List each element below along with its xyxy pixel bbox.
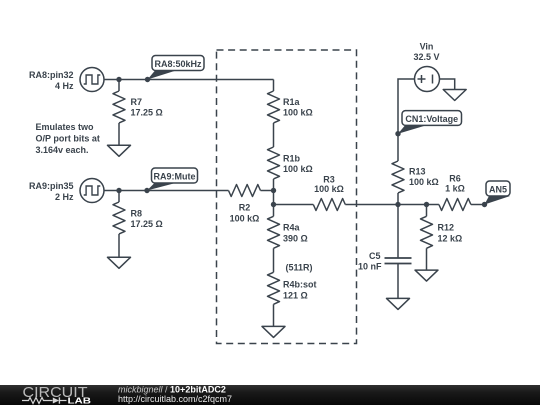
- label for source Vin (32.5 V): [413, 41, 439, 62]
- svg-text:R12: R12: [438, 223, 455, 233]
- wire R7 top lead: [118, 80, 120, 92]
- svg-text:R8: R8: [131, 209, 143, 219]
- wire Vin+ down to R13: [398, 79, 415, 161]
- wire RA9 row to R2: [104, 190, 229, 192]
- wire R12 to ground: [426, 248, 428, 270]
- svg-text:17.25 Ω: 17.25 Ω: [131, 108, 163, 118]
- svg-text:(511R): (511R): [286, 263, 313, 273]
- ground (under R7): [108, 145, 131, 156]
- svg-text:RA9:pin35: RA9:pin35: [29, 181, 74, 191]
- wire between R4a and R4b: [273, 248, 275, 272]
- svg-text:LAB: LAB: [68, 396, 92, 405]
- svg-text:R6: R6: [449, 174, 461, 184]
- wire R8 top lead: [118, 191, 120, 203]
- svg-text:Emulates two: Emulates two: [36, 122, 95, 132]
- wire R8 bottom lead: [118, 234, 120, 257]
- label for source V1 (RA8:pin32, 4 Hz): [29, 70, 74, 91]
- svg-text:Vin: Vin: [420, 41, 434, 51]
- node flag RA9:Mute: [144, 168, 197, 193]
- DC voltage source Vin: [415, 67, 440, 92]
- svg-text:R13: R13: [409, 167, 426, 177]
- svg-text:4 Hz: 4 Hz: [55, 81, 74, 91]
- node flag AN5: [482, 181, 510, 207]
- junction at R13/C5 column: [395, 202, 400, 207]
- svg-text:O/P port bits at: O/P port bits at: [36, 134, 100, 144]
- ground (under C5): [387, 298, 410, 309]
- junction at R12 column: [424, 202, 429, 207]
- wire Vin- to ground: [440, 79, 455, 90]
- logo wire with resistor and diode: [22, 397, 67, 403]
- wire between R1a and R1b: [273, 123, 275, 147]
- junction at R8 branch: [116, 188, 121, 193]
- svg-text:121 Ω: 121 Ω: [283, 291, 308, 301]
- wire R1b to R4a through junctions: [273, 179, 275, 216]
- svg-text:100 kΩ: 100 kΩ: [283, 164, 313, 174]
- svg-text:RA8:pin32: RA8:pin32: [29, 70, 74, 80]
- resistor R8: [113, 202, 163, 234]
- junction node at R2 tap: [271, 188, 276, 193]
- wire R2 to junction: [261, 190, 274, 192]
- wire junction to R3: [274, 204, 314, 206]
- ground (under R8): [108, 257, 131, 268]
- resistor R3: [313, 175, 345, 211]
- wire down to R12: [426, 205, 428, 217]
- svg-text:1 kΩ: 1 kΩ: [445, 183, 465, 193]
- svg-text:http://circuitlab.com/c2fqcm7: http://circuitlab.com/c2fqcm7: [118, 394, 232, 404]
- svg-text:17.25 Ω: 17.25 Ω: [131, 219, 163, 229]
- svg-text:100 kΩ: 100 kΩ: [409, 177, 439, 187]
- junction node at R3 tap: [271, 202, 276, 207]
- svg-text:R1b: R1b: [283, 154, 301, 164]
- svg-text:12 kΩ: 12 kΩ: [438, 234, 463, 244]
- wire R6 to AN5: [471, 204, 485, 206]
- svg-text:10 nF: 10 nF: [358, 262, 382, 272]
- dashed subcircuit box: [217, 50, 357, 344]
- junction at R7 branch: [116, 77, 121, 82]
- wire R13 bottom lead: [397, 193, 399, 205]
- square-wave voltage source V1 (RA8): [80, 68, 104, 92]
- square-wave voltage source V2 (RA9): [80, 179, 104, 203]
- svg-text:390 Ω: 390 Ω: [283, 234, 308, 244]
- node flag CN1:Voltage: [395, 111, 461, 137]
- resistor R1a: [268, 91, 313, 123]
- resistor R4a: [268, 216, 308, 248]
- svg-text:RA9:Mute: RA9:Mute: [154, 172, 196, 182]
- wire RA8 row to middle column: [104, 79, 274, 81]
- svg-text:RA8:50kHz: RA8:50kHz: [154, 59, 202, 69]
- svg-text:100 kΩ: 100 kΩ: [230, 213, 260, 223]
- resistor R2: [229, 185, 261, 224]
- svg-text:R2: R2: [239, 202, 251, 212]
- resistor R4b:sot: [268, 272, 317, 304]
- svg-text:R4a: R4a: [283, 223, 301, 233]
- svg-text:R1a: R1a: [283, 97, 301, 107]
- resistor R7: [113, 91, 163, 123]
- svg-text:AN5: AN5: [489, 185, 507, 195]
- ground (under R12): [415, 270, 438, 281]
- svg-text:CN1:Voltage: CN1:Voltage: [405, 114, 458, 124]
- ground (under R4b): [262, 326, 285, 337]
- wire R3 to R6: [345, 204, 439, 206]
- resistor R1b: [268, 147, 313, 179]
- wire C5 to ground: [397, 264, 399, 299]
- svg-text:C5: C5: [369, 251, 381, 261]
- node flag RA8:50kHz: [145, 56, 204, 83]
- svg-text:3.164v each.: 3.164v each.: [36, 145, 89, 155]
- svg-text:2 Hz: 2 Hz: [55, 192, 74, 202]
- resistor R6: [439, 174, 471, 211]
- svg-text:R7: R7: [131, 97, 143, 107]
- resistor R12: [421, 216, 463, 248]
- wire middle column top lead: [273, 80, 275, 92]
- svg-text:100 kΩ: 100 kΩ: [314, 184, 344, 194]
- svg-text:100 kΩ: 100 kΩ: [283, 108, 313, 118]
- ground (right of Vin): [443, 90, 466, 101]
- capacitor C5: [358, 251, 412, 272]
- wire down to C5: [397, 205, 399, 259]
- svg-text:R3: R3: [323, 175, 335, 185]
- wire R4b to ground: [273, 304, 275, 326]
- svg-text:32.5 V: 32.5 V: [413, 52, 439, 62]
- label for source V2 (RA9:pin35, 2 Hz): [29, 181, 74, 202]
- resistor R13: [392, 161, 439, 193]
- svg-text:R4b:sot: R4b:sot: [283, 280, 317, 290]
- wire R7 bottom lead: [118, 123, 120, 145]
- annotation note: [36, 122, 100, 155]
